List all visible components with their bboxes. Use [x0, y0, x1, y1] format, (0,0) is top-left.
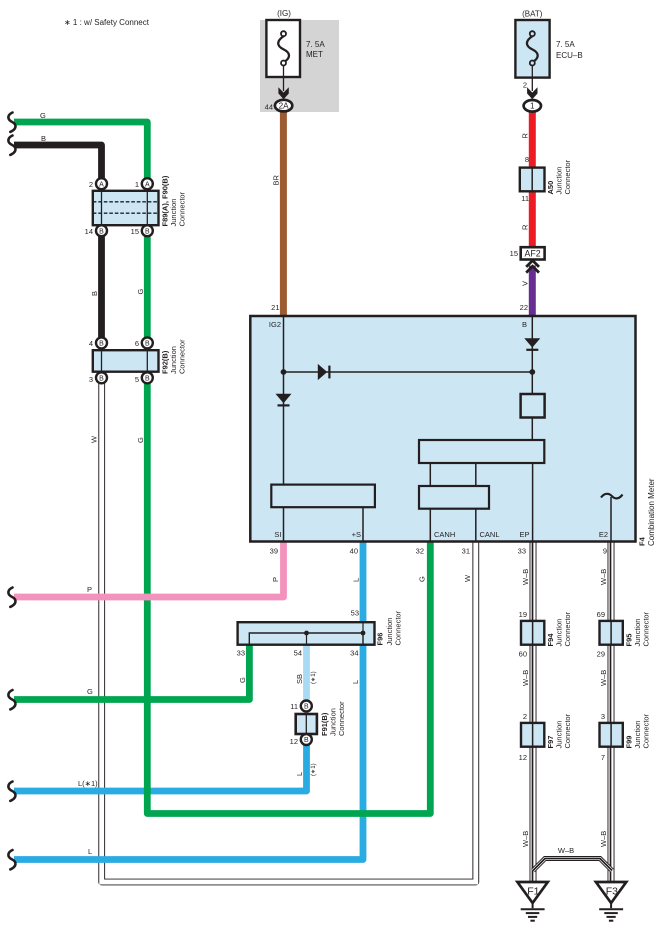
- meter internal: component box (small square): [521, 394, 545, 418]
- svg-text:CANL: CANL: [480, 530, 500, 539]
- svg-text:15: 15: [131, 227, 139, 236]
- meter internal: diode D3 (down, on B branch): [524, 338, 540, 350]
- svg-text:P: P: [87, 585, 92, 594]
- svg-text:11: 11: [521, 194, 529, 203]
- pin 2(A): [89, 178, 107, 189]
- svg-text:P: P: [271, 577, 280, 582]
- label G (between connectors): [136, 289, 145, 295]
- meter internal: MPX block (wide rect): [419, 440, 544, 463]
- wire W-B link between grounds: [533, 859, 612, 871]
- svg-text:2: 2: [523, 712, 527, 721]
- svg-text:L: L: [352, 578, 361, 582]
- label (*1) below F91: [310, 763, 317, 776]
- wire P (off-page to SI): [14, 542, 284, 598]
- svg-text:29: 29: [597, 650, 605, 659]
- svg-text:2: 2: [523, 81, 527, 90]
- svg-text:12: 12: [290, 737, 298, 746]
- connector 1 oval: [524, 100, 541, 112]
- svg-text:54: 54: [294, 648, 302, 657]
- svg-text:60: 60: [519, 650, 527, 659]
- pin 8: [525, 155, 529, 164]
- label P off-page: [87, 585, 92, 594]
- svg-text:MET: MET: [306, 50, 323, 59]
- svg-text:Connector: Connector: [563, 713, 572, 748]
- pin 19: [519, 610, 527, 619]
- wire W-B (E2 to F3 ground): [607, 542, 615, 882]
- label L(*1) off-page: [78, 779, 98, 788]
- svg-text:1: 1: [135, 180, 139, 189]
- svg-text:F96: F96: [376, 633, 385, 646]
- svg-text:9: 9: [603, 547, 607, 556]
- wire SB (F96 pin54 to F91 pin11): [303, 644, 310, 706]
- label L (below F91): [295, 772, 304, 776]
- svg-text:33: 33: [237, 648, 245, 657]
- svg-text:3: 3: [89, 375, 93, 384]
- svg-text:A: A: [99, 181, 104, 188]
- wire B (F89 pin14 to F92 pin4): [98, 234, 105, 340]
- svg-text:∗ 1 : w/ Safety Connect: ∗ 1 : w/ Safety Connect: [64, 18, 150, 27]
- label W-B (EP lower): [521, 831, 530, 847]
- label G off-page: [87, 687, 93, 696]
- wire W-B (EP to F1 ground): [529, 542, 537, 882]
- junction connector F99: [600, 713, 651, 748]
- svg-text:3: 3: [601, 712, 605, 721]
- ground F1: [517, 882, 547, 921]
- off-page connector squiggle B top: [8, 136, 15, 155]
- svg-text:+S: +S: [352, 530, 361, 539]
- svg-text:Connector: Connector: [178, 339, 187, 374]
- svg-text:B: B: [99, 341, 104, 348]
- meter internal: horizontal line to B branch: [284, 371, 533, 373]
- junction connector F89(A),F90(B): [93, 175, 187, 226]
- wire G (F89 pin15 to F92 pin6): [144, 234, 151, 340]
- pin 31: [462, 547, 470, 556]
- svg-text:L: L: [88, 847, 92, 856]
- svg-text:Connector: Connector: [394, 610, 403, 645]
- wire G (off-page to F96 pin33): [14, 644, 249, 700]
- svg-text:(∗1): (∗1): [310, 763, 317, 776]
- svg-text:F3: F3: [606, 886, 618, 898]
- pin 9: [603, 547, 607, 556]
- label B (between connectors): [90, 291, 99, 296]
- svg-text:6: 6: [135, 339, 139, 348]
- label L off-page: [88, 847, 92, 856]
- svg-text:B: B: [145, 341, 150, 348]
- svg-text:31: 31: [462, 547, 470, 556]
- svg-text:4: 4: [89, 339, 93, 348]
- pin 33: [518, 547, 526, 556]
- svg-text:11: 11: [290, 702, 298, 711]
- wire V (AF2 to pin22 B): [529, 266, 536, 316]
- meter internal: node at IG2/diode row: [281, 369, 287, 375]
- svg-text:B: B: [99, 228, 104, 235]
- svg-text:(∗1): (∗1): [310, 671, 317, 684]
- svg-text:ECU–B: ECU–B: [556, 51, 583, 60]
- pin 32: [416, 547, 424, 556]
- svg-text:(IG): (IG): [277, 9, 291, 18]
- svg-text:V: V: [521, 281, 530, 286]
- svg-text:E2: E2: [599, 530, 608, 539]
- label L (+S column): [352, 578, 361, 582]
- svg-text:W–B: W–B: [521, 670, 530, 686]
- off-page connector squiggle L(*1): [8, 782, 15, 801]
- junction connector F97: [521, 713, 572, 748]
- svg-text:Combination Meter: Combination Meter: [647, 478, 656, 546]
- svg-text:G: G: [238, 677, 247, 683]
- svg-text:SB: SB: [295, 674, 304, 684]
- pin 39: [270, 547, 278, 556]
- svg-text:L: L: [295, 772, 304, 776]
- svg-text:39: 39: [270, 547, 278, 556]
- label R upper: [521, 133, 530, 139]
- junction connector F94: [521, 611, 572, 646]
- svg-text:W–B: W–B: [599, 569, 608, 585]
- svg-text:L(∗1): L(∗1): [78, 779, 98, 788]
- svg-text:40: 40: [350, 547, 358, 556]
- svg-text:22: 22: [520, 303, 528, 312]
- pin 60: [519, 650, 527, 659]
- svg-text:32: 32: [416, 547, 424, 556]
- label G (CANH column): [418, 576, 427, 582]
- svg-text:F1: F1: [527, 886, 539, 898]
- svg-text:Connector: Connector: [563, 159, 572, 194]
- label BR: [272, 174, 281, 185]
- off-page connector squiggle G: [8, 690, 15, 709]
- svg-text:B: B: [41, 134, 46, 143]
- label (*1) SB: [310, 671, 317, 684]
- junction connector F91(B): [290, 701, 346, 747]
- label P: [271, 577, 280, 582]
- svg-text:5: 5: [135, 375, 139, 384]
- svg-text:W–B: W–B: [521, 831, 530, 847]
- off-page connector squiggle L: [8, 850, 15, 869]
- pin 15(B): [131, 225, 153, 236]
- svg-text:B: B: [99, 376, 104, 383]
- svg-text:14: 14: [85, 227, 93, 236]
- combination meter box F4: [250, 316, 656, 546]
- meter internal: gauge block (left rect): [271, 485, 375, 542]
- svg-text:W: W: [90, 435, 99, 443]
- label G (F96 pin33): [238, 677, 247, 683]
- pin 11: [521, 194, 529, 203]
- junction connector F95: [600, 611, 651, 646]
- pin 5(B): [135, 372, 153, 384]
- wire G (off-page top to F89 pin1): [14, 122, 147, 180]
- label W-B (EP column): [521, 569, 530, 585]
- meter internal: CAN driver block: [419, 463, 489, 542]
- svg-text:B: B: [145, 376, 150, 383]
- svg-text:L: L: [351, 680, 360, 684]
- svg-text:W–B: W–B: [558, 846, 574, 855]
- pin 7 (F99): [601, 753, 605, 762]
- label W (left column): [90, 435, 99, 443]
- svg-text:G: G: [418, 576, 427, 582]
- svg-text:B: B: [304, 737, 309, 744]
- svg-text:R: R: [521, 133, 530, 139]
- pin 4(B): [89, 337, 107, 348]
- label W-B (EP middle): [521, 670, 530, 686]
- svg-text:12: 12: [519, 753, 527, 762]
- meter internal: EP line: [532, 463, 534, 542]
- svg-text:W–B: W–B: [599, 831, 608, 847]
- svg-text:69: 69: [597, 610, 605, 619]
- svg-text:34: 34: [350, 648, 358, 657]
- pin 2 (F97): [523, 712, 527, 721]
- label W-B (ground link): [558, 846, 574, 855]
- svg-text:7. 5A: 7. 5A: [556, 40, 575, 49]
- label G (left column): [136, 437, 145, 443]
- pin 1(A): [135, 178, 153, 189]
- svg-text:W: W: [463, 574, 472, 582]
- wire W (F92 pin3 to CANL): [102, 383, 476, 882]
- wire B (off-page top to F89 pin2): [14, 145, 102, 180]
- pin 3 (F99): [601, 712, 605, 721]
- svg-text:B: B: [145, 228, 150, 235]
- svg-text:G: G: [136, 437, 145, 443]
- meter internal: diode D1 (right-pointing): [318, 364, 330, 380]
- pin 21: [271, 303, 279, 312]
- ground F3: [596, 882, 626, 921]
- meter internal: B line from pin22: [531, 315, 533, 440]
- svg-text:W–B: W–B: [599, 670, 608, 686]
- svg-text:B: B: [90, 291, 99, 296]
- wire G (F92 pin5 to CANH): [147, 381, 430, 814]
- svg-text:15: 15: [510, 249, 518, 258]
- wire L(*1) (off-page to F91 pin12): [14, 743, 307, 791]
- svg-text:B: B: [522, 320, 527, 329]
- meter internal: diode D2 (down, on SI branch): [276, 394, 292, 406]
- svg-text:B: B: [304, 704, 309, 711]
- fuse block background (IG): [260, 20, 339, 112]
- off-page connector squiggle G top: [8, 113, 15, 132]
- svg-text:2: 2: [89, 180, 93, 189]
- svg-text:Connector: Connector: [178, 191, 187, 226]
- pin 40: [350, 547, 358, 556]
- svg-text:F4: F4: [638, 536, 647, 546]
- svg-text:G: G: [40, 111, 46, 120]
- note: w/ Safety Connect: [64, 18, 150, 27]
- junction connector A50: [520, 159, 572, 194]
- pin 12 (F97): [519, 753, 527, 762]
- svg-text:EP: EP: [519, 530, 529, 539]
- svg-text:SI: SI: [274, 530, 281, 539]
- svg-text:CANH: CANH: [434, 530, 455, 539]
- label B top off-page: [41, 134, 46, 143]
- pin 6(B): [135, 337, 153, 348]
- svg-text:7: 7: [601, 753, 605, 762]
- meter internal: node on B branch: [529, 369, 535, 375]
- fuse ECU-B (BAT): [515, 10, 582, 100]
- svg-text:2A: 2A: [279, 101, 290, 110]
- svg-text:7. 5A: 7. 5A: [306, 40, 325, 49]
- meter internal: IG2 line: [283, 315, 285, 485]
- pin 69: [597, 610, 605, 619]
- svg-text:R: R: [521, 224, 530, 230]
- fuse MET (IG): [266, 9, 325, 99]
- pin 29: [597, 650, 605, 659]
- svg-text:IG2: IG2: [269, 320, 281, 329]
- pin 22: [520, 303, 528, 312]
- svg-text:19: 19: [519, 610, 527, 619]
- label W-B (E2 column): [599, 569, 608, 585]
- svg-text:G: G: [136, 289, 145, 295]
- svg-text:(BAT): (BAT): [522, 10, 543, 19]
- meter internal: E2 line with coil symbol: [601, 494, 623, 542]
- label W (CANL column): [463, 574, 472, 582]
- label V: [521, 281, 530, 286]
- label W-B (E2 middle): [599, 670, 608, 686]
- svg-text:W–B: W–B: [521, 569, 530, 585]
- svg-text:Connector: Connector: [642, 611, 651, 646]
- svg-text:G: G: [87, 687, 93, 696]
- svg-text:BR: BR: [272, 174, 281, 185]
- wire L (off-page to F96 pin34 to +S): [14, 542, 363, 860]
- svg-text:A: A: [145, 181, 150, 188]
- label G top off-page: [40, 111, 46, 120]
- connector AF2: [510, 247, 545, 272]
- svg-text:44: 44: [265, 103, 273, 112]
- connector 2A oval: [265, 100, 293, 112]
- svg-text:21: 21: [271, 303, 279, 312]
- svg-text:Connector: Connector: [337, 701, 346, 736]
- wire R (fuse ECU-B to AF2): [529, 110, 536, 248]
- label L (F96 pin34): [351, 680, 360, 684]
- svg-text:Connector: Connector: [563, 611, 572, 646]
- off-page connector squiggle P: [8, 588, 15, 607]
- svg-text:AF2: AF2: [525, 248, 541, 258]
- svg-text:33: 33: [518, 547, 526, 556]
- junction connector F92(B): [93, 339, 187, 374]
- svg-text:8: 8: [525, 155, 529, 164]
- svg-text:1: 1: [530, 102, 535, 111]
- junction connector F96: [237, 609, 403, 658]
- label R lower: [521, 224, 530, 230]
- svg-text:Connector: Connector: [642, 713, 651, 748]
- wire BR (fuse MET to IG2): [280, 108, 287, 315]
- pin 14(B): [85, 225, 107, 236]
- label W-B (E2 lower): [599, 831, 608, 847]
- pin 3(B): [89, 372, 107, 384]
- label SB: [295, 674, 304, 684]
- svg-text:53: 53: [351, 609, 359, 618]
